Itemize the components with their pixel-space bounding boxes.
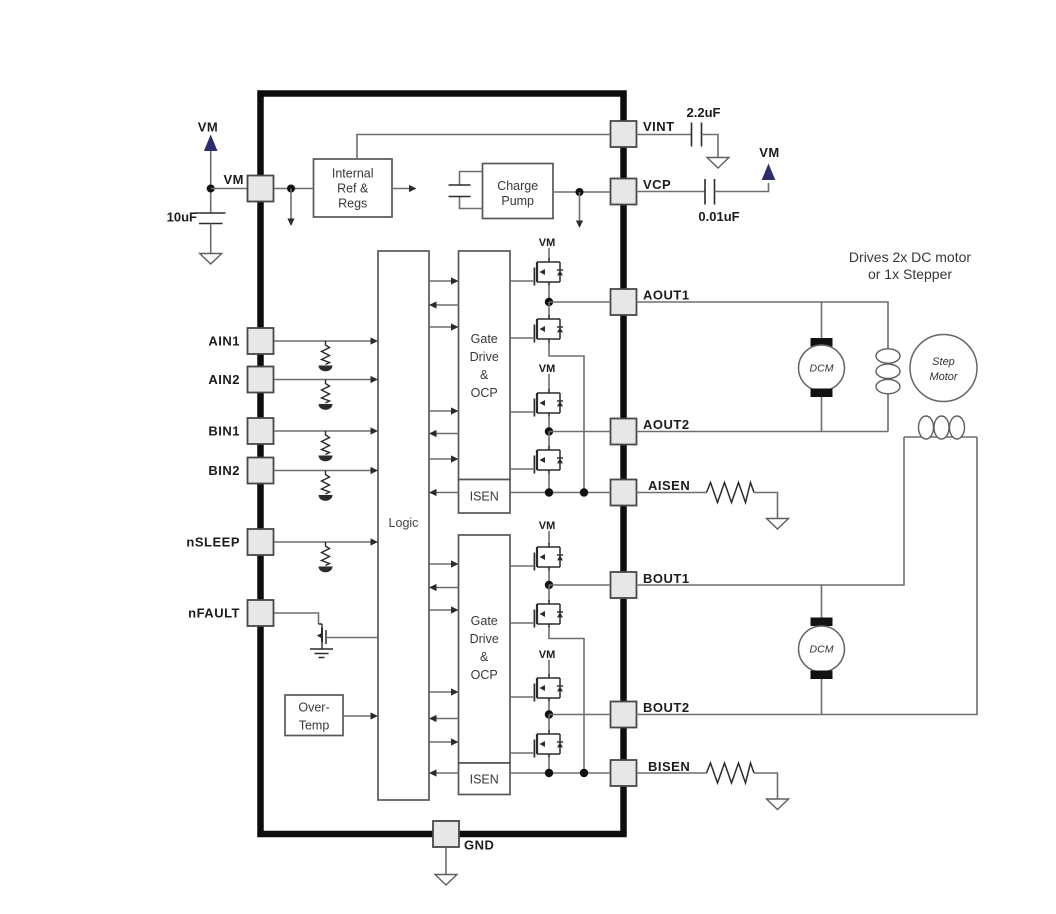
svg-text:Logic: Logic	[389, 516, 419, 530]
wire VM to FET A1 drain	[548, 248, 550, 259]
svg-text:BOUT2: BOUT2	[643, 700, 690, 715]
pin nSLEEP	[248, 529, 274, 555]
svg-text:VINT: VINT	[643, 119, 675, 134]
wire Logic-GateDriveA arrow 4	[429, 410, 452, 412]
capacitor C2 charge-pump flying cap	[460, 172, 483, 209]
pin AIN2	[248, 367, 274, 393]
wire BOUT1 node to FET B2 drain	[548, 585, 550, 601]
ground (GND pin)	[435, 875, 457, 886]
junction ISEN-B node 1	[545, 769, 553, 777]
wire BOUT2 node to FET B4 drain	[548, 715, 550, 732]
svg-text:AOUT1: AOUT1	[643, 288, 690, 303]
wire FET B1 source to BOUT1 node	[548, 570, 550, 585]
pin AIN1	[248, 328, 274, 354]
transistor Q6 (B half-bridge 1 high side)	[534, 543, 563, 571]
junction AOUT1 node	[545, 298, 553, 306]
ground (2.2uF)	[707, 158, 729, 169]
pin AOUT2	[611, 419, 637, 445]
svg-text:Drives 2x DC motor: Drives 2x DC motor	[849, 249, 971, 265]
wire nSLEEP to Logic	[274, 541, 371, 543]
junction BOUT2 node	[545, 710, 553, 718]
wire AIN2 to Logic	[274, 379, 371, 381]
svg-text:nSLEEP: nSLEEP	[186, 535, 240, 550]
svg-text:VM: VM	[539, 649, 556, 661]
block U2 Charge Pump	[483, 164, 554, 219]
VM supply arrow (navy)	[204, 135, 218, 152]
junction internal VM node	[287, 185, 295, 193]
block U1 Internal Ref & Regs	[314, 159, 393, 217]
svg-text:ISEN: ISEN	[470, 773, 499, 787]
wire gate A4	[510, 468, 534, 470]
block U4 Gate Drive & OCP (A)	[459, 251, 511, 480]
wire ref block output arrow	[392, 188, 410, 190]
junction VM node	[207, 185, 215, 193]
capacitor C1 10uF	[196, 213, 226, 224]
resistor R7 BISEN sense	[707, 763, 755, 783]
wire BOUT1 node to pin	[549, 584, 611, 586]
wire BIN1 to Logic	[274, 430, 371, 432]
wire nFAULT to FET drain	[274, 613, 319, 624]
pin nFAULT	[248, 600, 274, 626]
svg-text:2.2uF: 2.2uF	[687, 105, 721, 120]
transistor Q3 (A half-bridge 1 low side)	[534, 315, 563, 343]
svg-text:GND: GND	[464, 838, 494, 853]
svg-text:Gate: Gate	[471, 332, 498, 346]
svg-text:BISEN: BISEN	[648, 759, 690, 774]
svg-text:OCP: OCP	[471, 386, 498, 400]
junction BOUT1 node	[545, 581, 553, 589]
wire Logic-GateDriveB arrow 5	[436, 718, 459, 720]
svg-text:DCM: DCM	[810, 363, 834, 375]
wire VCP node down arrow	[579, 192, 581, 221]
svg-text:AIN1: AIN1	[208, 334, 240, 349]
block U3 Logic	[378, 251, 429, 800]
svg-text:Motor: Motor	[929, 371, 958, 383]
wire DCM A to AOUT2	[821, 397, 823, 432]
wire ref block to VINT pin	[357, 135, 611, 160]
wire charge pump to VCP pin	[553, 191, 611, 193]
wire gate B4	[510, 752, 534, 754]
wire BOUT2 node to pin	[549, 714, 611, 716]
svg-text:ISEN: ISEN	[470, 490, 499, 504]
svg-text:Pump: Pump	[501, 194, 534, 208]
svg-text:&: &	[480, 650, 489, 664]
wire cap to ground	[210, 224, 212, 254]
pin VINT	[611, 121, 637, 147]
resistor R6 AISEN sense	[707, 483, 755, 503]
svg-text:VM: VM	[539, 520, 556, 532]
svg-text:VM: VM	[539, 363, 556, 375]
wire BIN2 to Logic	[274, 470, 371, 472]
svg-text:Charge: Charge	[497, 179, 538, 193]
transistor Q1 nFAULT open-drain	[319, 624, 323, 628]
motor M2 Step Motor	[910, 335, 977, 402]
wire VM pin to ref block	[274, 188, 314, 190]
pin VCP	[611, 179, 637, 205]
wire FET A1 source to AOUT1 node	[548, 285, 550, 302]
svg-text:0.01uF: 0.01uF	[698, 209, 739, 224]
wire Logic-GateDriveB arrow 2	[436, 587, 459, 589]
wire internal VM down arrow	[290, 189, 292, 220]
wire FET B2 source to ISEN-B rail	[549, 627, 584, 773]
motor M1 DCM (A)	[811, 338, 833, 347]
wire ISEN-B to Logic arrow	[436, 772, 459, 774]
resistor R1 AIN1 pulldown	[319, 341, 333, 371]
wire Logic-GateDriveA arrow 1	[429, 280, 452, 282]
wire AOUT2 node to pin	[549, 431, 611, 433]
svg-text:Regs: Regs	[338, 197, 367, 211]
svg-text:AISEN: AISEN	[648, 478, 690, 493]
wire gate B3	[510, 696, 534, 698]
svg-text:OCP: OCP	[471, 668, 498, 682]
wire FET A3 source to AOUT2 node	[548, 416, 550, 432]
wire Logic-GateDriveB arrow 4	[429, 691, 452, 693]
wire Logic-GateDriveB arrow 3	[429, 609, 452, 611]
transistor Q4 (A half-bridge 2 high side)	[534, 389, 563, 417]
junction ISEN-A node 2	[580, 488, 588, 496]
wire gate A1	[510, 280, 534, 282]
inductor L2 stepper winding B	[904, 436, 977, 438]
svg-text:VM: VM	[759, 145, 780, 160]
transistor Q5 (A half-bridge 2 low side)	[534, 446, 563, 474]
wire ISEN-A rail to AISEN pin	[510, 492, 611, 494]
wire DCM B to BOUT2	[821, 679, 823, 715]
block U8 Over-Temp	[285, 695, 343, 736]
svg-text:Drive: Drive	[470, 350, 499, 364]
transistor Q2 (A half-bridge 1 high side)	[534, 258, 563, 286]
wire GND pin to ground	[445, 847, 447, 874]
wire AISEN to sense resistor	[637, 492, 707, 494]
junction ISEN-A node 1	[545, 488, 553, 496]
pin BIN2	[248, 458, 274, 484]
wire VM to FET B1 drain	[548, 531, 550, 544]
inductor L1 stepper winding A	[876, 349, 900, 363]
wire FET B4 source to ISEN-B rail	[548, 757, 550, 773]
wire FET B3 source to BOUT2 node	[548, 701, 550, 715]
svg-text:DCM: DCM	[810, 644, 834, 656]
svg-text:10uF: 10uF	[167, 210, 197, 225]
svg-text:Internal: Internal	[332, 167, 374, 181]
pin BOUT1	[611, 572, 637, 598]
wire AOUT1 to stepper winding A	[637, 302, 889, 432]
block U7 ISEN (B)	[459, 763, 511, 795]
capacitor C4 0.01uF	[637, 191, 705, 193]
wire gate A3	[510, 411, 534, 413]
IC package outline	[261, 94, 624, 835]
junction AOUT2 node	[545, 427, 553, 435]
wire sense resistor B to ground	[754, 773, 778, 799]
motor M3 DCM (B)	[811, 618, 833, 627]
wire nFAULT gate to Logic	[326, 637, 378, 639]
wire BISEN to sense resistor	[637, 772, 707, 774]
ground (BISEN)	[767, 799, 789, 810]
svg-text:VCP: VCP	[643, 177, 671, 192]
pin VM	[248, 176, 274, 202]
wire VM node to VM pin	[211, 188, 248, 190]
svg-text:Step: Step	[932, 356, 955, 368]
wire FET A4 source to ISEN-A rail	[548, 473, 550, 493]
wire AOUT1 tap to DCM A	[821, 302, 823, 340]
svg-text:BIN1: BIN1	[208, 424, 240, 439]
svg-text:BIN2: BIN2	[208, 463, 240, 478]
svg-text:VM: VM	[539, 237, 556, 249]
resistor R5 nSLEEP pulldown	[319, 542, 333, 572]
resistor R4 BIN2 pulldown	[319, 471, 333, 501]
wire AOUT1 node to pin	[549, 301, 611, 303]
pin AOUT1	[611, 289, 637, 315]
svg-text:nFAULT: nFAULT	[188, 606, 240, 621]
wire Logic-GateDriveA arrow 3	[429, 326, 452, 328]
ground (AISEN)	[767, 519, 789, 530]
resistor R2 AIN2 pulldown	[319, 380, 333, 410]
wire VM to FET A3 drain	[548, 374, 550, 390]
junction ISEN-B node 2	[580, 769, 588, 777]
wire 2.2uF to ground	[702, 135, 719, 158]
wire VM to FET B3 drain	[548, 660, 550, 675]
pin BOUT2	[611, 702, 637, 728]
wire gate B2	[510, 622, 534, 624]
svg-text:Temp: Temp	[299, 719, 330, 733]
wire ISEN-B rail to BISEN pin	[510, 772, 611, 774]
ground (10uF)	[200, 254, 222, 265]
pin BIN1	[248, 418, 274, 444]
wire gate A2	[510, 337, 534, 339]
junction VCP internal node	[576, 188, 584, 196]
wire Over-Temp to Logic arrow	[343, 715, 371, 717]
wire 0.01uF to VM	[715, 183, 769, 192]
svg-text:VM: VM	[224, 172, 245, 187]
wire Logic-GateDriveB arrow 1	[429, 563, 452, 565]
pin GND	[433, 821, 459, 847]
transistor Q8 (B half-bridge 2 high side)	[534, 674, 563, 702]
svg-text:or 1x Stepper: or 1x Stepper	[868, 266, 952, 282]
wire AOUT1 node to FET A2 drain	[548, 302, 550, 316]
svg-text:BOUT1: BOUT1	[643, 571, 690, 586]
wire VM arrow to node	[210, 151, 212, 213]
svg-text:AOUT2: AOUT2	[643, 417, 690, 432]
svg-text:Over-: Over-	[298, 701, 329, 715]
wire gate B1	[510, 565, 534, 567]
pin BISEN	[611, 760, 637, 786]
svg-text:Gate: Gate	[471, 614, 498, 628]
wire ISEN-A to Logic arrow	[436, 492, 459, 494]
wire BOUT1 to stepper winding B	[637, 437, 905, 585]
wire Logic-GateDriveA arrow 2	[436, 304, 459, 306]
wire AOUT2 to stepper winding A	[637, 431, 889, 433]
wire Logic-GateDriveA arrow 6	[429, 458, 452, 460]
resistor R3 BIN1 pulldown	[319, 431, 333, 461]
block U6 Gate Drive & OCP (B)	[459, 535, 511, 763]
ground (nFAULT FET)	[310, 649, 333, 658]
svg-text:VM: VM	[198, 120, 219, 135]
svg-text:Drive: Drive	[470, 632, 499, 646]
wire FET A2 source to ISEN-A rail	[549, 342, 584, 493]
wire Logic-GateDriveB arrow 6	[429, 741, 452, 743]
wire BOUT1 tap to DCM B	[821, 585, 823, 620]
wire AIN1 to Logic	[274, 340, 371, 342]
svg-text:AIN2: AIN2	[208, 372, 240, 387]
svg-text:&: &	[480, 368, 489, 382]
wire sense resistor A to ground	[754, 493, 778, 519]
wire AOUT2 node to FET A4 drain	[548, 432, 550, 448]
wire BOUT2 to stepper winding B	[637, 437, 978, 715]
wire Logic-GateDriveA arrow 5	[436, 433, 459, 435]
transistor Q7 (B half-bridge 1 low side)	[534, 600, 563, 628]
block U5 ISEN (A)	[459, 480, 511, 514]
transistor Q9 (B half-bridge 2 low side)	[534, 730, 563, 758]
pin AISEN	[611, 480, 637, 506]
svg-text:Ref &: Ref &	[337, 182, 369, 196]
